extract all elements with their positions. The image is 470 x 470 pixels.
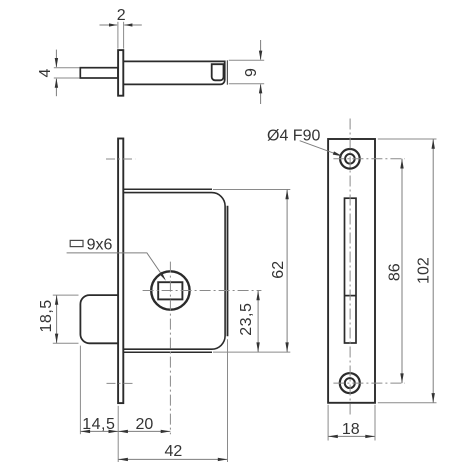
svg-text:4: 4 [37, 68, 54, 77]
inner fold detail (plan) [212, 64, 225, 80]
screw hole top countersink [340, 149, 360, 169]
arrow dim4 bottom [55, 78, 58, 88]
flange bottom edge [124, 351, 212, 353]
arrow dim23,5 top [256, 291, 259, 301]
dimension 2 line left tail [100, 24, 118, 26]
centerline horizontal bottom hole [333, 382, 405, 384]
dimension 9 line top tail [260, 40, 262, 60]
arrow dim18,5 top [55, 295, 58, 305]
svg-text:23,5: 23,5 [238, 303, 255, 336]
wire: extension dim18 left [327, 405, 329, 441]
wire: extension line dim2 left [117, 22, 119, 49]
wire: extension line dim9 bottom [229, 83, 264, 85]
wire: extension dim102 bottom [378, 402, 437, 404]
dimension 23,5 line [257, 291, 259, 353]
arrow dim4 top [55, 58, 58, 68]
dimension 18 line [328, 435, 375, 437]
arrow dim14,5 left [80, 430, 90, 433]
wire: extension dim62 top [213, 189, 290, 191]
faceplate bar (plan) [118, 50, 123, 96]
dimension 4 line top tail [55, 50, 57, 67]
svg-text:9x6: 9x6 [87, 236, 113, 253]
dimension 14,5 and 20 line [80, 430, 170, 432]
latch bolt (front) [80, 295, 119, 343]
wire: extension latch left bottom [79, 346, 81, 435]
dimension 9 line bottom tail [260, 85, 262, 105]
arrow dim2 left [109, 23, 117, 26]
leader line 9x6 [67, 253, 165, 279]
arrow dim102 top [432, 139, 435, 149]
arrow dim102 bottom [432, 393, 435, 403]
svg-text:20: 20 [136, 416, 154, 433]
dimension 18,5 line [56, 295, 58, 343]
wire: extension dim18,5 bottom [53, 342, 79, 344]
lip edge line (plan) [226, 60, 228, 84]
centerline horizontal top hole [333, 158, 405, 160]
svg-text:42: 42 [165, 443, 183, 460]
centerline horizontal through follower [143, 290, 262, 292]
arrow dim20 right [161, 430, 171, 433]
wire: extension dim18,5 top [53, 294, 79, 296]
screw hole bottom bore [345, 378, 355, 388]
wire: extension dim18 right [374, 405, 376, 441]
arrow dim14,5 right [109, 430, 119, 433]
wire: extension body right bottom [227, 339, 229, 462]
arrow dim9 top [259, 51, 262, 61]
svg-text:2: 2 [117, 7, 126, 24]
square symbol of label 9x6 [70, 240, 83, 246]
wire: extension dim62/23,5 bottom [213, 351, 290, 353]
arrow dim18,5 bottom [55, 334, 58, 344]
follower square hole 9x6 [158, 282, 182, 299]
screw hole centre tick top [106, 158, 135, 160]
lock case outline (front) [124, 193, 225, 350]
wire: extension line dim4 top [54, 67, 80, 69]
dimension 4 line bottom tail [55, 79, 57, 96]
wire: extension dim102 top [378, 138, 437, 140]
arrow dim42 right [218, 458, 228, 461]
svg-text:102: 102 [415, 257, 432, 284]
centerline vertical faceplate [349, 119, 351, 418]
dimension 2 line right tail [124, 24, 142, 26]
arrow dim2 right [124, 23, 132, 26]
svg-text:86: 86 [386, 263, 403, 281]
arrow dim42 left [118, 458, 128, 461]
screw hole bottom countersink [340, 373, 360, 393]
slot cutout [345, 198, 357, 343]
latch bolt pin (plan) [80, 68, 118, 78]
wire: extension faceplate left bottom [117, 406, 119, 462]
svg-text:18,5: 18,5 [38, 299, 55, 332]
arrow dim20 left [118, 430, 128, 433]
dimension 62 line [286, 190, 288, 353]
dimension 102 line [432, 139, 434, 403]
faceplate plate outline [328, 139, 375, 403]
wire: extension line dim2 right [123, 22, 125, 49]
arrow dim9 bottom [259, 84, 262, 94]
centerline vertical through follower [169, 262, 171, 435]
dimension 42 line [118, 458, 227, 460]
faceplate (front, edge-on) [118, 139, 123, 404]
follower hub circle [151, 271, 189, 309]
screw hole top bore [345, 154, 355, 164]
wire: extension line dim4 bottom [54, 77, 80, 79]
leader arrow 9x6 [159, 272, 166, 281]
latch edge visible in slot [345, 295, 357, 297]
arrow dim18 left [328, 435, 338, 438]
dimension 86 line [401, 159, 403, 383]
svg-text:18: 18 [342, 421, 360, 438]
arrow dim62 top [285, 190, 288, 200]
svg-text:Ø4 F90: Ø4 F90 [267, 127, 320, 144]
screw hole centre tick bottom [107, 382, 136, 384]
flange top edge [124, 188, 212, 190]
arrow dim18 right [365, 435, 375, 438]
leader line O4 F90 [300, 141, 341, 156]
body of lock case (plan) [124, 61, 225, 84]
arrow dim86 top [400, 159, 403, 169]
svg-text:9: 9 [243, 68, 260, 77]
arrow dim86 bottom [400, 373, 403, 383]
leader arrow O4 F90 [333, 151, 343, 156]
lip right edge (front) [227, 206, 229, 337]
wire: extension line dim9 top [229, 59, 264, 61]
svg-text:14,5: 14,5 [82, 416, 115, 433]
arrow dim62 bottom [285, 342, 288, 352]
svg-text:62: 62 [270, 261, 287, 279]
arrow dim23,5 bottom [256, 342, 259, 352]
